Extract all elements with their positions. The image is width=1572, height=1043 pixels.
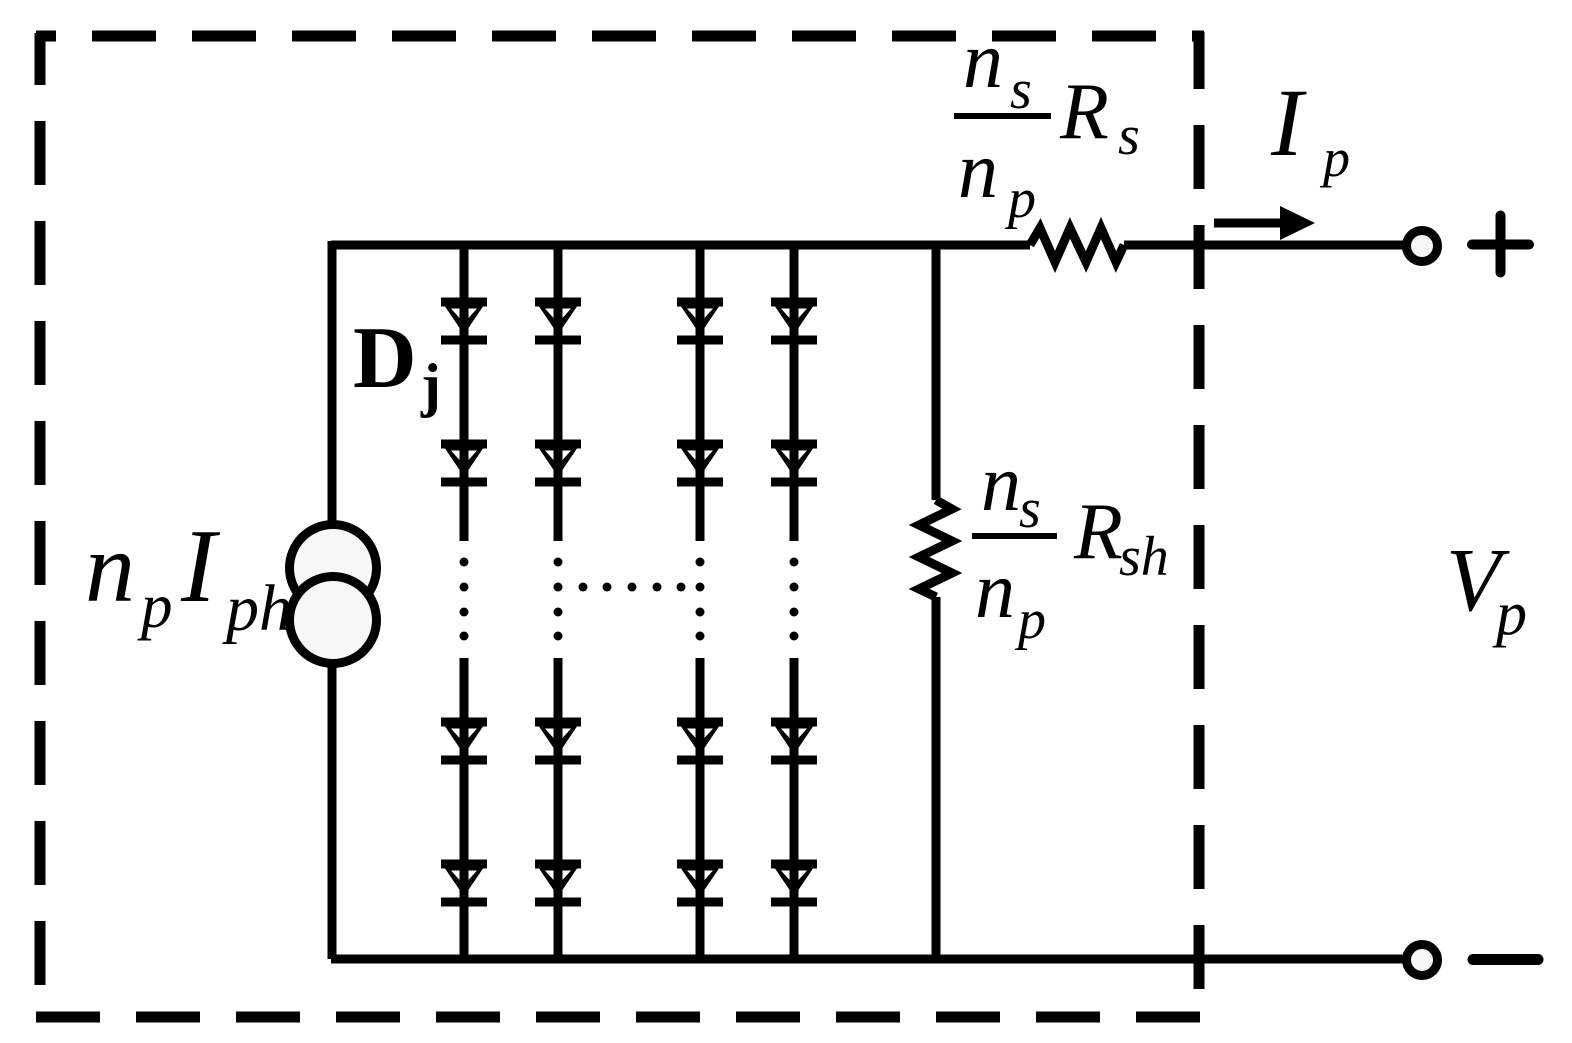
current source upper circle: [290, 525, 377, 612]
diode D2c: [535, 717, 581, 764]
svg-text:n: n: [85, 512, 135, 623]
column 4 continuation dots: [790, 558, 799, 641]
wire: left branch upper: [328, 241, 337, 522]
dashed boundary box bottom edge: [36, 1012, 1200, 1023]
label Dj (diode designator): [353, 310, 441, 418]
diode D4c: [771, 717, 817, 764]
label ns/np Rs (series resistor value): [954, 17, 1140, 230]
svg-text:p: p: [1319, 128, 1350, 188]
diode D2d: [535, 859, 581, 906]
dashed boundary box left edge: [35, 33, 46, 1017]
svg-text:n: n: [958, 127, 998, 215]
svg-text:ph: ph: [222, 572, 292, 645]
label Ip (output current): [1270, 69, 1350, 188]
svg-text:p: p: [1004, 168, 1036, 230]
plus sign: [1472, 216, 1529, 273]
column 1 continuation dots: [460, 558, 469, 641]
label Vp (output voltage): [1446, 531, 1527, 648]
svg-text:j: j: [420, 352, 441, 418]
diode D3d: [677, 859, 723, 906]
diode D1c: [441, 717, 487, 764]
label n_p I_ph (current source value): [85, 507, 292, 645]
diode D4d: [771, 859, 817, 906]
svg-text:I: I: [180, 507, 221, 624]
wire: bottom bus: [331, 955, 1403, 964]
diode string column 2 wire: [554, 245, 563, 959]
wire: left branch lower: [328, 666, 337, 959]
wire: shunt branch lower: [932, 597, 941, 959]
resistor Rs zigzag: [1030, 228, 1124, 262]
current source lower circle: [290, 577, 377, 664]
wire: shunt branch upper: [932, 245, 941, 500]
svg-text:n: n: [981, 440, 1021, 528]
svg-text:p: p: [137, 571, 173, 641]
diode string column 3 wire: [696, 245, 705, 959]
minus sign: [1473, 954, 1538, 965]
svg-text:D: D: [353, 310, 417, 407]
diode D1d: [441, 859, 487, 906]
current arrow Ip: [1214, 206, 1315, 240]
svg-text:I: I: [1270, 69, 1307, 176]
diode D3b: [677, 439, 723, 486]
svg-text:p: p: [1492, 580, 1527, 648]
dashed boundary box top edge: [36, 31, 1204, 42]
wire: top bus left segment: [331, 241, 1030, 250]
diode D2b: [535, 439, 581, 486]
terminal node + (top right): [1407, 231, 1438, 262]
diode D1b: [441, 439, 487, 486]
diode D3c: [677, 717, 723, 764]
diode D3a: [677, 297, 723, 344]
label ns/np Rsh (shunt resistor value): [972, 440, 1169, 651]
horizontal continuation dots between columns 2 and 3: [579, 583, 686, 592]
svg-text:s: s: [1118, 105, 1140, 167]
diode D4a: [771, 297, 817, 344]
svg-text:s: s: [1010, 59, 1032, 121]
diode string column 1 wire: [460, 245, 469, 959]
resistor Rsh zigzag: [919, 500, 952, 597]
diode D1a: [441, 297, 487, 344]
svg-text:R: R: [1073, 488, 1123, 576]
terminal node - (bottom right): [1407, 945, 1438, 976]
column 2 continuation dots: [554, 558, 563, 641]
diode D2a: [535, 297, 581, 344]
column 3 continuation dots: [696, 558, 705, 641]
diode string column 4 wire: [790, 245, 799, 959]
svg-text:R: R: [1059, 68, 1109, 156]
wire: top bus right segment to + terminal: [1124, 241, 1403, 250]
dashed boundary box right edge: [1194, 32, 1205, 1017]
svg-text:sh: sh: [1119, 526, 1169, 588]
svg-text:n: n: [975, 547, 1015, 635]
svg-text:p: p: [1014, 589, 1046, 651]
diode D4b: [771, 439, 817, 486]
svg-text:s: s: [1019, 478, 1041, 540]
svg-text:n: n: [963, 17, 1003, 105]
